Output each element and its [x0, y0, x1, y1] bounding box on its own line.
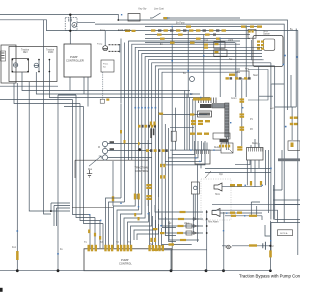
connector dark bar [200, 104, 212, 108]
svg-text:10A: 10A [204, 39, 209, 42]
wire row1 [155, 205, 203, 212]
annotation pointer [205, 171, 211, 178]
svg-text:P2: P2 [250, 129, 254, 131]
connector box small [100, 99, 104, 103]
tag row y77 [226, 77, 229, 79]
wire hatched left box drop [198, 164, 202, 242]
svg-text:Acc: Acc [270, 107, 275, 110]
svg-text:Press: Press [103, 64, 108, 66]
horn R1 [214, 183, 222, 191]
wire left nested corners [51, 203, 70, 226]
corner wires from pins to bundle [162, 141, 205, 165]
wire stair 6 [152, 63, 271, 108]
wire horn1 [222, 186, 262, 188]
wire pstair 10 [137, 112, 159, 240]
wire bottom right vertical [269, 221, 271, 271]
wire cb2 vertical x206.7 [206, 210, 208, 271]
wire hatched box drops [251, 160, 259, 187]
svg-text:T1: T1 [84, 242, 87, 244]
relay K2 coil [34, 63, 38, 67]
dashed drop left of B2 [102, 72, 104, 99]
svg-text:T4: T4 [128, 242, 131, 244]
wire pstair 2 [109, 106, 125, 248]
relay terminal dots [12, 59, 14, 61]
yellow tag rail2 [125, 30, 130, 32]
relay K2 contacts [39, 60, 49, 73]
svg-text:Sol: Sol [168, 223, 172, 225]
wire bus h4 [145, 38, 250, 40]
wire stair 5 [148, 60, 262, 108]
left relay group box [9, 47, 57, 82]
yellow fuse left [16, 251, 19, 260]
junction dot A bottom [69, 30, 71, 32]
svg-text:5A: 5A [160, 43, 163, 46]
gauge wires [105, 144, 152, 158]
svg-text:PUMP: PUMP [70, 55, 78, 59]
wire stair extra [129, 41, 241, 160]
top right rounded module box [253, 36, 283, 67]
legend box [278, 230, 293, 236]
yellow tag [164, 17, 168, 19]
svg-text:Horn: Horn [215, 193, 221, 196]
relay K1 contact box [12, 59, 29, 73]
svg-text:B+ Fuse: B+ Fuse [176, 23, 185, 25]
vertical tags right [250, 181, 252, 186]
svg-text:CONTROL: CONTROL [119, 261, 132, 265]
svg-text:Sw: Sw [103, 67, 106, 69]
motor circle [103, 46, 108, 51]
terminal row bus5 [170, 42, 175, 44]
wire left vertical x58 [57, 95, 59, 271]
terminal mid cluster [204, 44, 208, 46]
wire pstair 5 [121, 108, 142, 248]
wire left branch 3 [49, 72, 210, 98]
svg-text:NOTE A: NOTE A [280, 232, 288, 235]
thick bar right [278, 158, 300, 161]
small relay box w circle [191, 182, 199, 194]
wire into hatched boxes from above [204, 139, 259, 150]
wire drop 5 [235, 43, 237, 98]
accessory box right [248, 70, 268, 101]
wire drop 6 [245, 27, 247, 98]
wire y150 to boxA [170, 149, 221, 151]
svg-text:Conn: Conn [231, 98, 237, 100]
wire pstair 1 [106, 103, 122, 248]
pump control box [84, 249, 172, 271]
contactor A coil circle [72, 23, 77, 28]
junction dot top drop [117, 19, 119, 21]
boxA yellow pins [222, 145, 224, 148]
relay K3 [150, 13, 170, 18]
wire right x282 [273, 150, 282, 190]
wire stair 3 [142, 54, 262, 108]
svg-text:Valve: Valve [184, 223, 190, 225]
wire right mid horizontals [205, 168, 271, 172]
yellow column right of striped connector [240, 98, 245, 100]
hatched box H-right [247, 148, 264, 161]
dark pins under box [220, 139, 229, 142]
horn option feed box [248, 30, 256, 39]
wire bundle right branches [152, 69, 240, 250]
svg-text:Rev Alarm: Rev Alarm [208, 221, 219, 224]
svg-text:Line Cont: Line Cont [154, 8, 164, 11]
wire drop 4 [219, 39, 221, 98]
wire pstair 8 [131, 108, 152, 248]
switch lever [89, 156, 101, 166]
terminal row bus4 [160, 38, 165, 40]
terminal row bus3 [157, 34, 162, 36]
svg-text:Sw: Sw [150, 244, 154, 246]
wire under left boxes [0, 85, 58, 87]
svg-text:CONTROLLER: CONTROLLER [66, 58, 84, 62]
wire row2 [159, 209, 204, 219]
wire left branch 2 [36, 72, 200, 94]
yellow terminal clusters [88, 26, 298, 252]
svg-text:Option: Option [263, 33, 270, 36]
wire y96 [259, 95, 273, 97]
box right of connector [213, 133, 230, 139]
wire left vertical x43 [44, 20, 52, 214]
tiny text smudges [12, 8, 294, 266]
wire cb5 [152, 245, 207, 250]
wire right verticals [270, 84, 272, 220]
wire corner 271-284 [271, 75, 291, 107]
connector yellow pairs [191, 120, 196, 122]
horn R2 [212, 209, 220, 217]
wire pump ctrl bottom drops [70, 77, 88, 107]
connector white box [198, 111, 212, 117]
wire top rail 2 [0, 20, 298, 255]
wire cb6 [225, 216, 270, 236]
wire right pair lines [273, 185, 300, 220]
wire rail C from contactor [95, 24, 284, 222]
svg-text:Sw: Sw [229, 59, 233, 61]
junction blue dots [17, 14, 298, 255]
wire pstair 6 [124, 108, 145, 248]
wire drop 3 [203, 35, 205, 98]
wire pstair 3 [114, 108, 136, 248]
row y150 tags [146, 149, 149, 152]
junction dot A top [69, 14, 71, 16]
svg-text:Opt: Opt [219, 173, 223, 176]
junction dots bottom [16, 269, 19, 272]
wire y114.5 [160, 114, 207, 116]
left inner label box [1, 51, 6, 61]
traction control box [147, 140, 149, 206]
small box B2 [101, 60, 114, 72]
svg-text:F2: F2 [271, 246, 274, 248]
hatched box H-left [195, 150, 210, 164]
wire y210 corner [212, 210, 278, 222]
relay K1 coil [13, 63, 17, 67]
component boxes mid right [214, 42, 225, 48]
terminal row bus1 [241, 26, 247, 28]
bottom mid yellow [231, 215, 236, 217]
bundle wire tags [159, 113, 163, 115]
module internal wire [251, 40, 263, 60]
connector row yellow [193, 98, 211, 101]
wire y204 long [212, 203, 300, 205]
contact pin rows [109, 44, 120, 46]
row junction dots [206, 211, 208, 213]
wire drop from module [258, 67, 260, 148]
svg-text:Pump: Pump [97, 44, 103, 46]
wire left branch 5 [14, 95, 80, 104]
svg-text:Traction: Traction [46, 49, 55, 52]
svg-text:Traction Bypass with Pump Cont: Traction Bypass with Pump Control [239, 273, 300, 278]
right edge yellow pairs [290, 117, 294, 119]
wire left vertical x29 [29, 82, 70, 211]
gauge tags [110, 141, 115, 143]
pin row return wire [119, 44, 121, 53]
svg-text:Fu1: Fu1 [12, 247, 17, 249]
wire from A to right [77, 21, 95, 23]
svg-text:FU1 300A: FU1 300A [118, 28, 131, 32]
tag x113 [112, 196, 114, 201]
dotted wire in module [258, 35, 281, 37]
wire stair 7 [155, 66, 274, 108]
svg-text:B+: B+ [183, 73, 187, 75]
svg-text:M: M [98, 147, 100, 149]
junction blob [138, 148, 141, 151]
striped band to connector [212, 104, 225, 109]
center vertical group [170, 91, 195, 151]
wire after relay [168, 17, 241, 19]
gauge circle 1 [102, 141, 107, 146]
wire stair 1 [135, 47, 262, 107]
pump right terminals wires [150, 212, 162, 246]
svg-text:T3: T3 [116, 242, 119, 244]
capacitor bars on lamp wire [263, 242, 266, 250]
wire stair 2 [139, 50, 263, 107]
wire left branch 4 [0, 99, 73, 101]
wire row5 [169, 221, 199, 240]
wire rail2 to motor [104, 31, 106, 46]
svg-text:Fu: Fu [60, 249, 63, 251]
circle component b+ [190, 77, 195, 82]
traction ctrl box pins [146, 184, 152, 186]
svg-text:Traction: Traction [21, 49, 30, 52]
wire yellow column vertical [226, 80, 242, 150]
svg-text:Light: Light [228, 39, 233, 42]
wire cb1 [170, 250, 172, 271]
right small box [288, 141, 300, 150]
gauge circle 2 [102, 148, 107, 153]
wire cb3 [223, 212, 225, 271]
svg-text:Horn: Horn [263, 30, 269, 33]
svg-text:Relay: Relay [214, 147, 221, 149]
bottom rail [0, 270, 270, 272]
small boxes bottom center [186, 224, 192, 228]
svg-text:FWD: FWD [48, 52, 54, 54]
junction dot left [50, 210, 52, 212]
svg-text:Res: Res [88, 169, 93, 171]
svg-text:CONTROL: CONTROL [136, 169, 149, 173]
wire top rail 1 [0, 14, 288, 110]
wire bus drops left [121, 39, 125, 46]
lamp bottom right [227, 245, 231, 249]
contactor A tip marks [69, 19, 71, 22]
wire right verticals mid2 [235, 150, 269, 216]
wire bus h1 [145, 26, 262, 28]
wire row4 [166, 217, 204, 233]
svg-text:REV: REV [23, 52, 28, 54]
traction control box edges [72, 160, 148, 207]
yellow fuse right [269, 250, 272, 257]
wire left vertical x14 [13, 83, 15, 100]
diode arrows [192, 218, 199, 235]
wire pstair 9 [134, 108, 155, 240]
wire bus h5 [145, 42, 235, 44]
wire center vertical pair [121, 45, 125, 106]
box A with yellow pins [221, 143, 233, 153]
contactor A dashed box [65, 18, 77, 31]
wire drop 1 [171, 27, 173, 98]
wire lamp [222, 245, 270, 247]
left edge black mark [0, 288, 3, 292]
wire pstair 4 [117, 108, 139, 248]
svg-text:Relay: Relay [252, 143, 259, 145]
pump controller box U1 [64, 44, 91, 77]
bottom right box [271, 223, 300, 256]
svg-text:P1: P1 [250, 119, 254, 121]
horn yellow pairs [230, 184, 235, 186]
wire horn2 [220, 212, 262, 214]
wire left group verticals [58, 95, 103, 224]
wire drop 2 [187, 31, 189, 98]
relay box outputs [193, 194, 195, 232]
module inner box [264, 39, 275, 50]
ground symbol [87, 170, 92, 177]
svg-text:TRACTION: TRACTION [135, 166, 148, 170]
left outer box [1, 45, 16, 83]
gauge circle 3 [102, 155, 107, 160]
terminal row bus2 (dense) [151, 29, 155, 31]
wire through capacitor [174, 108, 176, 150]
wire left vertical x17 [16, 83, 18, 271]
option dashed box [201, 179, 231, 220]
module pins [257, 41, 260, 43]
svg-text:Key Sw: Key Sw [139, 9, 147, 11]
wire x113 [112, 161, 114, 206]
svg-text:PUMP: PUMP [121, 258, 129, 262]
small box keysw [237, 71, 249, 79]
tall striped connector [225, 103, 229, 137]
wire row3 [162, 213, 203, 226]
wire left branch [22, 72, 190, 91]
breaker CB1 [128, 14, 140, 22]
left fan into pump box [90, 215, 103, 249]
keysw yellow [229, 74, 235, 76]
yellow on y99 [106, 99, 109, 101]
pump box terminals [88, 245, 90, 252]
svg-text:Fuse: Fuse [100, 30, 106, 32]
svg-text:Start: Start [253, 74, 258, 77]
wire stair 4 [145, 57, 262, 108]
wire bus h3 [145, 34, 250, 36]
bundle connector row y126 [138, 125, 141, 128]
boxA top yellow row [219, 145, 221, 148]
capacitor box on bundle [171, 131, 176, 141]
connector pin block center [199, 98, 217, 104]
wire vertical through A [69, 15, 71, 44]
wire pstair 7 [128, 108, 149, 248]
